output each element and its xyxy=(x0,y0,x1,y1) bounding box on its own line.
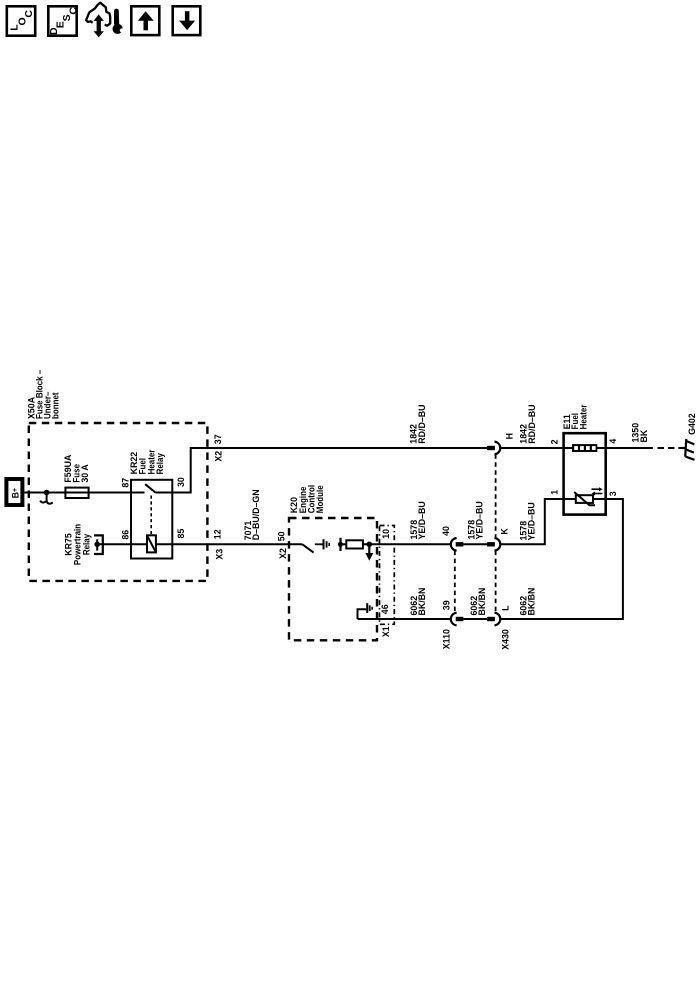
svg-text:1578YE/D–BU: 1578YE/D–BU xyxy=(518,502,537,541)
junction dot KR75 xyxy=(94,542,100,548)
relay KR75 feed bracket xyxy=(94,535,103,554)
svg-text:2: 2 xyxy=(549,439,559,444)
label F59UA Fuse 30 A xyxy=(63,454,90,482)
fuel heater E11 box xyxy=(564,433,606,514)
K20 internal switch blade xyxy=(302,544,313,552)
svg-text:C: C xyxy=(23,10,35,18)
svg-text:6062BK/BN: 6062BK/BN xyxy=(518,588,537,616)
wire B+ to fuse to relay pin 87 xyxy=(24,492,131,494)
K20 connector X1 dash-dot outline xyxy=(380,526,395,625)
svg-text:1350BK: 1350BK xyxy=(630,423,649,443)
connector X430 pin H xyxy=(487,442,500,455)
fuse block X50A dashed outline xyxy=(29,423,208,581)
relay coil dashed link xyxy=(150,496,152,536)
thermistor in E11 xyxy=(574,492,595,505)
K20 internal ground 1 xyxy=(315,539,329,549)
svg-text:X430: X430 xyxy=(500,629,510,650)
junction splice dot on B+ feed xyxy=(44,490,50,496)
K20 internal resistor xyxy=(341,540,363,548)
connector X430 pin K xyxy=(487,538,500,551)
svg-text:X1: X1 xyxy=(381,626,391,637)
svg-text:1578YE/D–BU: 1578YE/D–BU xyxy=(409,501,428,540)
relay coil KR22 xyxy=(147,535,156,552)
toolbar button LOC xyxy=(7,6,35,35)
relay KR22 box xyxy=(131,480,172,559)
dashed wire to G402 xyxy=(658,447,683,449)
ground G402 xyxy=(683,439,695,460)
wire K20 pin 46 to X110 xyxy=(358,618,451,620)
svg-text:G402: G402 xyxy=(687,413,697,435)
toolbar button scroll-down xyxy=(173,6,201,35)
svg-text:7071D–BU/D–GN: 7071D–BU/D–GN xyxy=(243,489,262,540)
label KR22 Fuel Heater Relay xyxy=(129,449,166,474)
wire relay pin 30 riser xyxy=(172,448,487,493)
svg-text:6062BK/BN: 6062BK/BN xyxy=(469,588,488,616)
connector X430 pin L xyxy=(487,613,500,626)
wire X430 H to E11 pin 2 xyxy=(501,447,564,449)
label E11 Fuel Heater xyxy=(562,404,589,429)
K20 internal supply bar xyxy=(339,538,341,551)
svg-text:H: H xyxy=(504,433,514,439)
splice curl symbol xyxy=(40,493,53,504)
svg-text:6062BK/BN: 6062BK/BN xyxy=(409,588,428,616)
svg-text:86: 86 xyxy=(120,530,130,540)
wire E11 lower internal xyxy=(564,498,606,500)
svg-text:10: 10 xyxy=(381,529,391,539)
svg-text:1: 1 xyxy=(549,490,559,495)
svg-text:X3: X3 xyxy=(214,549,224,560)
svg-text:4: 4 xyxy=(608,438,618,444)
svg-text:1842RD/D–BU: 1842RD/D–BU xyxy=(518,404,537,444)
svg-text:Relay: Relay xyxy=(81,534,92,555)
svg-text:46: 46 xyxy=(380,604,390,614)
heater element E11 xyxy=(572,444,597,452)
svg-text:X110: X110 xyxy=(441,629,451,649)
svg-text:3: 3 xyxy=(608,491,618,496)
svg-text:37: 37 xyxy=(213,434,223,444)
svg-text:X2: X2 xyxy=(278,548,288,559)
svg-text:40: 40 xyxy=(441,526,451,536)
svg-text:30 A: 30 A xyxy=(80,464,90,483)
connector X430 dashed line xyxy=(495,454,497,612)
wire K20 pin 10 to X110 xyxy=(363,543,451,545)
svg-text:Heater: Heater xyxy=(578,404,589,429)
wire X430 to E11 pin 1 xyxy=(501,499,564,544)
label KR75 Powertrain Relay xyxy=(63,524,91,565)
label X50A Fuse Block - Underbonnet xyxy=(26,370,60,419)
K20 internal ground 2 at pin 46 xyxy=(358,603,373,619)
relay switch contact 87-30 xyxy=(131,484,172,492)
junction dot pin10 xyxy=(367,542,373,548)
svg-text:85: 85 xyxy=(176,529,186,539)
toolbar button DESC xyxy=(48,6,80,35)
fuse F59UA 30 A xyxy=(65,488,88,498)
svg-text:87: 87 xyxy=(120,478,130,488)
svg-text:1842RD/D–BU: 1842RD/D–BU xyxy=(408,404,427,444)
svg-text:bonnet: bonnet xyxy=(50,392,61,419)
wire X110 to X430 (1578) xyxy=(463,543,487,545)
wire KR75 to relay coil to K20 pin 50 xyxy=(97,543,302,545)
connector X110 pin 40 xyxy=(451,538,464,551)
svg-text:B+: B+ xyxy=(10,488,21,498)
svg-text:X2: X2 xyxy=(213,451,223,462)
svg-text:L: L xyxy=(500,605,510,611)
wire X430 L to E11 pin 3 xyxy=(501,499,623,619)
svg-text:C: C xyxy=(68,7,80,15)
junction dot supply xyxy=(338,542,343,547)
connector X110 pin 39 xyxy=(451,613,464,626)
signal arrow down xyxy=(365,544,373,561)
svg-text:Relay: Relay xyxy=(155,453,166,474)
toolbar button scroll-up xyxy=(131,6,159,35)
svg-text:Module: Module xyxy=(314,485,325,513)
svg-text:39: 39 xyxy=(441,600,451,610)
connector X110 dashed line xyxy=(454,551,456,613)
svg-text:1578YE/D–BU: 1578YE/D–BU xyxy=(466,501,485,540)
toolbar icon component-location (outline, double arrow, wrench) xyxy=(86,3,124,38)
svg-text:12: 12 xyxy=(212,529,222,539)
battery terminal B+ xyxy=(6,479,22,505)
wire X110 to X430 (6062) xyxy=(463,618,487,620)
ECM K20 dashed outline xyxy=(289,518,377,640)
svg-text:50: 50 xyxy=(276,531,286,541)
bidirectional arrows in E11 xyxy=(592,487,603,495)
label K20 Engine Control Module xyxy=(289,485,325,513)
svg-text:K: K xyxy=(499,528,509,535)
svg-text:30: 30 xyxy=(176,477,186,487)
wire through E11 heater xyxy=(564,447,606,449)
wire E11 pin 4 to ground xyxy=(606,447,653,449)
